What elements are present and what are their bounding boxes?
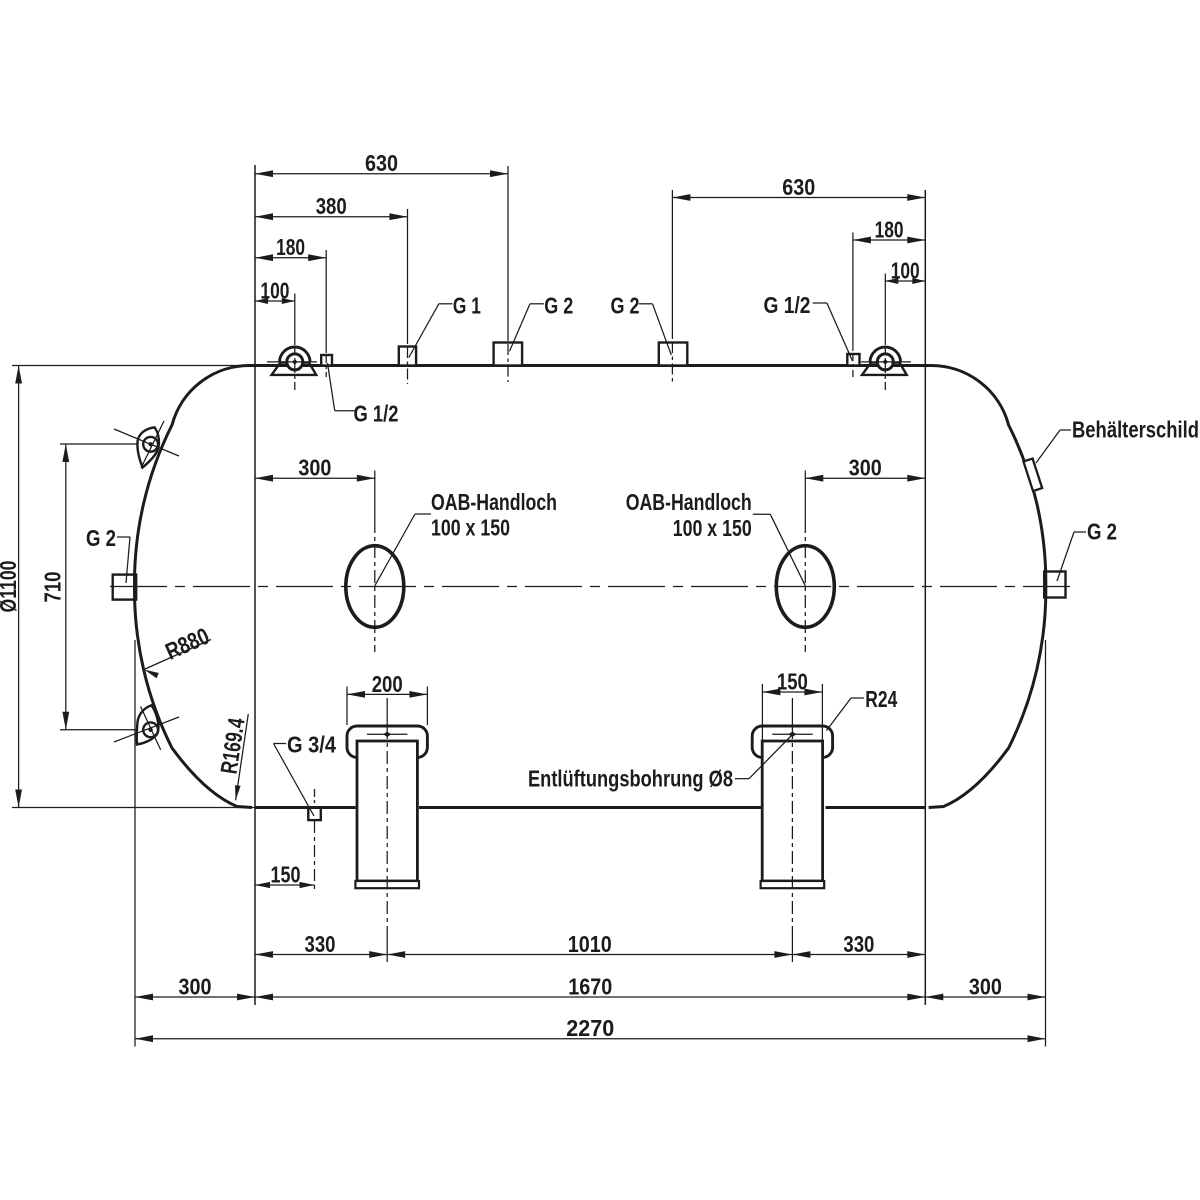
svg-text:2270: 2270	[566, 1015, 614, 1041]
svg-text:G 1: G 1	[453, 293, 481, 319]
svg-text:OAB-Handloch: OAB-Handloch	[626, 489, 752, 515]
svg-text:G 2: G 2	[611, 293, 640, 319]
svg-text:330: 330	[843, 931, 874, 957]
svg-text:100: 100	[891, 257, 920, 283]
svg-text:630: 630	[365, 150, 398, 176]
svg-text:OAB-Handloch: OAB-Handloch	[431, 489, 557, 515]
svg-text:300: 300	[298, 455, 331, 481]
svg-text:G 2: G 2	[544, 293, 573, 319]
svg-text:300: 300	[969, 973, 1002, 999]
svg-text:G 2: G 2	[86, 525, 116, 551]
svg-text:100 x 150: 100 x 150	[673, 515, 752, 541]
svg-text:200: 200	[372, 671, 403, 697]
svg-text:G 3/4: G 3/4	[287, 732, 336, 758]
svg-text:Ø1100: Ø1100	[0, 561, 21, 613]
svg-text:G 1/2: G 1/2	[354, 400, 399, 426]
svg-text:G 1/2: G 1/2	[764, 292, 811, 318]
svg-text:G 2: G 2	[1087, 519, 1117, 545]
svg-text:710: 710	[39, 572, 65, 603]
svg-text:100 x 150: 100 x 150	[431, 515, 510, 541]
svg-text:150: 150	[271, 861, 301, 887]
svg-text:1010: 1010	[568, 931, 612, 957]
svg-text:180: 180	[276, 234, 305, 260]
svg-text:180: 180	[875, 216, 904, 242]
svg-text:630: 630	[782, 174, 815, 200]
svg-text:300: 300	[179, 973, 212, 999]
svg-text:330: 330	[305, 931, 336, 957]
svg-text:Behälterschild: Behälterschild	[1072, 417, 1199, 443]
svg-text:R24: R24	[865, 686, 897, 712]
svg-text:100: 100	[260, 277, 289, 303]
svg-text:1670: 1670	[568, 973, 612, 999]
svg-text:Entlüftungsbohrung Ø8: Entlüftungsbohrung Ø8	[528, 766, 733, 792]
svg-text:150: 150	[777, 668, 808, 694]
svg-text:300: 300	[849, 455, 882, 481]
svg-text:380: 380	[316, 193, 347, 219]
